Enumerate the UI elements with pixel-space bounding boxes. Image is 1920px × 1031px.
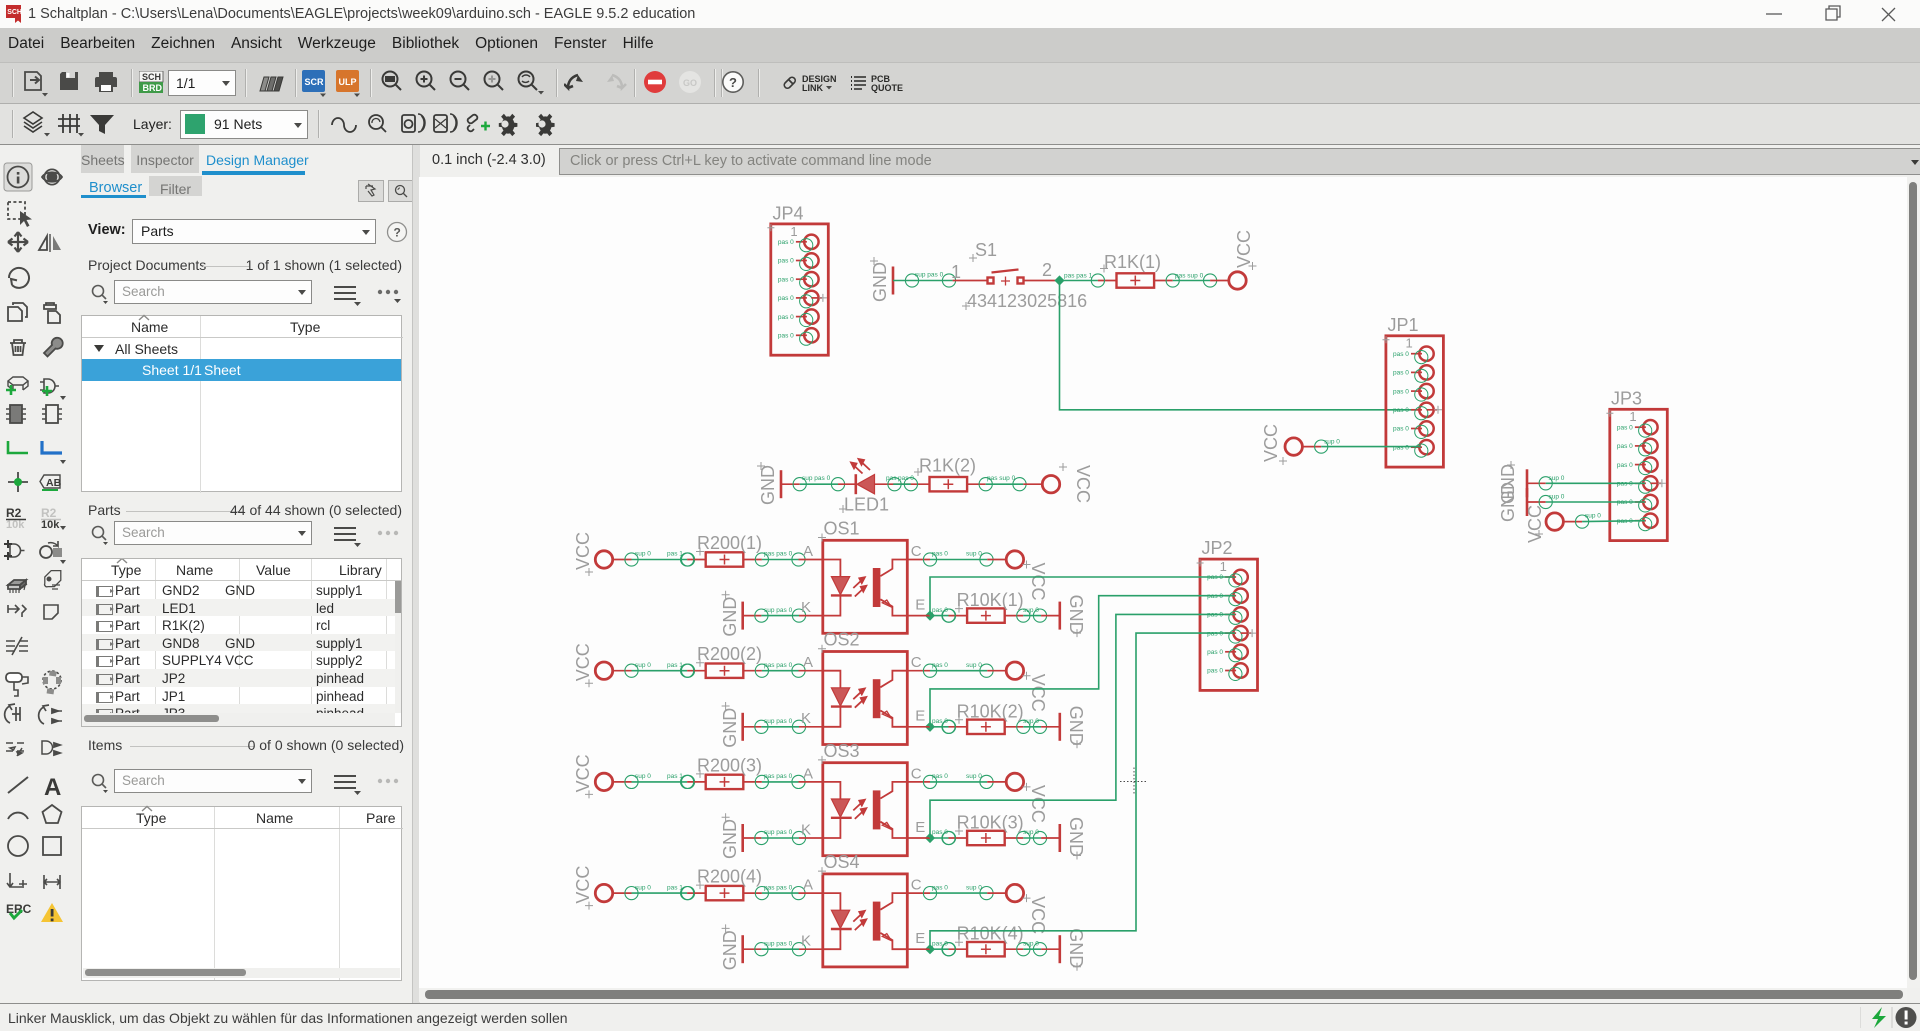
items table [81, 806, 402, 981]
svg-text:pas 0: pas 0 [932, 829, 948, 836]
optocoupler OS4 [801, 874, 925, 967]
svg-text:R200(3): R200(3) [697, 755, 762, 775]
svg-text:sup 0: sup 0 [966, 662, 982, 669]
svg-text:VCC: VCC [1028, 896, 1048, 934]
ground symbol GND (R10K(4)) [1041, 928, 1086, 971]
resistor R10K(3) [942, 831, 1030, 845]
svg-text:sup pas 0: sup pas 0 [915, 272, 944, 279]
svg-text:GND: GND [1066, 595, 1086, 635]
wire: GND to JP3 pin 4 [1527, 475, 1645, 490]
label R1K(2) [914, 456, 976, 477]
value label 434123025816 [962, 291, 1087, 311]
optocoupler OS2 [801, 652, 925, 745]
svg-text:sup pas 0: sup pas 0 [764, 940, 793, 947]
svg-text:BRD: BRD [143, 83, 163, 93]
resistor R200(1) [681, 552, 769, 566]
wire: OS2 emitter to R10K(2) [907, 718, 955, 733]
svg-text:sup 0: sup 0 [1549, 475, 1565, 482]
svg-text:sup 0: sup 0 [966, 884, 982, 891]
svg-text:VCC: VCC [573, 532, 593, 570]
wire: VCC to R200(2) [625, 662, 695, 677]
svg-text:VCC: VCC [1261, 424, 1281, 462]
label S1 [969, 240, 997, 262]
svg-text:R1K(1): R1K(1) [1104, 252, 1161, 272]
svg-text:GO: GO [683, 78, 697, 88]
svg-text:VCC: VCC [1234, 230, 1254, 268]
svg-text:GND: GND [1066, 817, 1086, 857]
supply VCC (R200(4) input) [573, 866, 632, 910]
LED LED1 [838, 459, 911, 494]
label OS3 [818, 741, 860, 764]
svg-text:OS2: OS2 [824, 630, 860, 650]
svg-text:pas sup 0: pas sup 0 [1175, 273, 1204, 280]
toolbar row 1 [0, 63, 1920, 104]
svg-text:VCC: VCC [1028, 563, 1048, 601]
svg-text:pas 0: pas 0 [932, 773, 948, 780]
ground symbol GND (R10K(1)) [1041, 595, 1086, 638]
optocoupler OS1 [801, 540, 925, 633]
svg-text:R10K(2): R10K(2) [957, 701, 1024, 721]
wire: GND to OS2 cathode [743, 718, 823, 733]
wire: R200(4) to OS4 anode [762, 884, 823, 899]
ground symbol GND (OS4 cathode) [720, 924, 743, 970]
svg-text:VCC: VCC [573, 754, 593, 792]
svg-text:sup 0: sup 0 [635, 662, 651, 669]
label R200(3) [696, 755, 762, 778]
supply VCC (R200(3) input) [573, 754, 632, 798]
svg-text:SCR: SCR [305, 77, 325, 87]
svg-text:R10K(1): R10K(1) [957, 590, 1024, 610]
svg-text:pas 0: pas 0 [932, 662, 948, 669]
wire: R1K(2) to VCC [986, 475, 1026, 491]
svg-text:GND: GND [1498, 482, 1518, 522]
switch S1 [953, 270, 1059, 286]
resistor R200(2) [681, 664, 769, 678]
svg-text:GND: GND [720, 708, 740, 748]
svg-text:A: A [44, 774, 61, 801]
svg-text:pas sup 0: pas sup 0 [987, 475, 1016, 482]
label LED1 [839, 495, 889, 515]
resistor R1K(2) [904, 477, 992, 491]
svg-text:pas pas 0: pas pas 0 [764, 884, 793, 891]
svg-text:VCC: VCC [1028, 785, 1048, 823]
wire: OS2 collector to VCC [907, 662, 993, 677]
svg-text:pas 0: pas 0 [898, 475, 914, 482]
wire: R200(3) to OS3 anode [762, 773, 823, 788]
svg-text:sup 0: sup 0 [1585, 513, 1601, 520]
svg-text:JP3: JP3 [1611, 389, 1642, 409]
label R1K(1) [1100, 252, 1161, 273]
svg-text:VCC: VCC [1073, 465, 1093, 503]
svg-text:R2: R2 [6, 506, 22, 520]
svg-text:pas pas 1: pas pas 1 [1064, 273, 1093, 280]
wire: OS3 collector to VCC [907, 773, 993, 788]
svg-text:GND: GND [720, 597, 740, 637]
svg-text:QUOTE: QUOTE [871, 83, 903, 93]
wire: GND to LED1 cathode [781, 475, 845, 491]
label R200(4) [696, 867, 762, 890]
resistor R10K(4) [942, 942, 1030, 956]
wire: OS4 collector to VCC [907, 884, 993, 899]
supply VCC (OS2 collector) [987, 662, 1048, 712]
junction node (S1/R1K/JP1 net) [1054, 275, 1064, 285]
svg-text:ULP: ULP [339, 77, 357, 87]
supply VCC (OS1 collector) [987, 551, 1048, 601]
svg-text:GND: GND [758, 465, 778, 505]
wire: junction to R1K(1) [1060, 273, 1098, 281]
label OS4 [818, 852, 860, 875]
svg-text:pas 0: pas 0 [932, 718, 948, 725]
svg-text:AB: AB [46, 477, 62, 489]
schematic canvas [419, 177, 1907, 988]
parts table [81, 558, 402, 727]
mouse crosshair cursor [1120, 768, 1148, 796]
label R10K(1) [955, 590, 1024, 613]
svg-text:GND: GND [1066, 928, 1086, 968]
wire: R10K(3) to GND [1023, 829, 1047, 844]
resistor R200(4) [681, 886, 769, 900]
supply VCC (OS4 collector) [987, 884, 1048, 934]
svg-text:OS1: OS1 [824, 519, 860, 539]
connector JP4 [767, 224, 828, 355]
ground symbol GND (R10K(2)) [1041, 706, 1086, 749]
supply VCC (LED net) [1023, 463, 1093, 503]
svg-text:sup 0: sup 0 [966, 773, 982, 780]
svg-text:JP1: JP1 [1388, 315, 1419, 335]
svg-text:sup pas 0: sup pas 0 [764, 718, 793, 725]
svg-text:sup 0: sup 0 [1549, 494, 1565, 501]
supply VCC (JP1 pin 6) [1261, 424, 1321, 465]
svg-text:sup pas 0: sup pas 0 [764, 607, 793, 614]
wire: GND to OS4 cathode [743, 940, 823, 955]
wire: OS4 emitter to JP2 pin 4 [930, 633, 1235, 949]
svg-text:SCH: SCH [142, 72, 161, 82]
svg-text:10k: 10k [41, 519, 60, 531]
label JP2 [1202, 538, 1233, 558]
label OS2 [818, 630, 860, 653]
ground symbol GND (LED net) [757, 462, 781, 505]
svg-text:pas: pas [886, 475, 897, 482]
wire: R200(2) to OS2 anode [762, 662, 823, 677]
svg-text:sup 0: sup 0 [1023, 718, 1039, 725]
wire: LED1 anode to R1K(2) [886, 475, 914, 491]
svg-text:OS3: OS3 [824, 741, 860, 761]
wire: VCC to R200(4) [625, 884, 695, 899]
project documents table [81, 315, 402, 492]
svg-text:OS4: OS4 [824, 852, 860, 872]
svg-text:JP2: JP2 [1202, 538, 1233, 558]
svg-text:?: ? [729, 75, 737, 90]
svg-text:R10K(4): R10K(4) [957, 924, 1024, 944]
optocoupler OS3 [801, 763, 925, 856]
wire: VCC to R200(1) [625, 551, 695, 566]
status bar [0, 1003, 1920, 1031]
ground symbol GND (JP3 pin 4) [1498, 461, 1527, 504]
svg-text:sup pas 0: sup pas 0 [764, 829, 793, 836]
wire: R200(1) to OS1 anode [762, 551, 823, 566]
svg-text:JP4: JP4 [773, 204, 804, 224]
label JP3 [1611, 389, 1642, 409]
svg-text:LED1: LED1 [844, 495, 889, 515]
connector JP2 [1197, 559, 1258, 690]
ground symbol GND (S1 net) [870, 257, 893, 302]
svg-text:R2: R2 [41, 506, 57, 520]
svg-text:pas pas 0: pas pas 0 [764, 662, 793, 669]
label R200(2) [696, 644, 762, 667]
svg-text:pas pas 0: pas pas 0 [764, 551, 793, 558]
svg-text:sup 0: sup 0 [635, 884, 651, 891]
svg-text:434123025816: 434123025816 [967, 291, 1087, 311]
svg-text:S1: S1 [975, 240, 997, 260]
left tool palette [0, 145, 82, 1003]
svg-text:R200(2): R200(2) [697, 644, 762, 664]
supply VCC (R200(2) input) [573, 643, 632, 687]
wire: R10K(4) to GND [1023, 940, 1047, 955]
label R10K(4) [955, 924, 1024, 947]
label JP1 [1388, 315, 1419, 335]
menu bar [0, 28, 1920, 63]
wire: OS1 emitter to R10K(1) [907, 607, 955, 622]
label R10K(3) [955, 813, 1024, 836]
wire: OS3 emitter to R10K(3) [907, 829, 955, 844]
wire: GND to S1 pin 1 [893, 272, 956, 288]
design manager panel [81, 145, 412, 1003]
svg-text:pas 0: pas 0 [932, 551, 948, 558]
svg-text:10k: 10k [6, 519, 25, 531]
svg-text:sup 0: sup 0 [1023, 940, 1039, 947]
ground symbol GND (R10K(3)) [1041, 817, 1086, 860]
label OS1 [818, 519, 860, 542]
junction node (OS1 emitter) [925, 611, 935, 621]
wire: R10K(1) to GND [1023, 607, 1047, 622]
wire: VCC to JP3 pin 6 [1576, 513, 1646, 529]
supply VCC (OS3 collector) [987, 773, 1048, 823]
svg-text:sup 0: sup 0 [1324, 439, 1340, 446]
supply VCC (R200(1) input) [573, 532, 632, 576]
window title bar [0, 0, 1920, 28]
svg-text:sup 0: sup 0 [635, 551, 651, 558]
svg-text:GND: GND [1066, 706, 1086, 746]
svg-text:pas 0: pas 0 [932, 940, 948, 947]
svg-text:pas pas 0: pas pas 0 [764, 773, 793, 780]
ground symbol GND (OS1 cathode) [720, 591, 743, 637]
junction node (OS3 emitter) [925, 833, 935, 843]
wire: OS1 emitter to JP2 pin 1 [930, 577, 1235, 616]
resistor R200(3) [681, 775, 769, 789]
label JP4 [773, 204, 804, 224]
connector JP3 [1606, 409, 1667, 540]
resistor R1K(1) [1091, 273, 1179, 287]
label 1 (S1 pin 1) [951, 262, 961, 282]
wire: OS4 emitter to R10K(4) [907, 940, 955, 955]
supply VCC (S1 net) [1210, 230, 1256, 289]
svg-text:?: ? [394, 226, 401, 240]
wire: junction to JP1 pin 4 [1060, 281, 1422, 410]
wire: VCC to JP1 pin 6 [1315, 439, 1421, 454]
svg-text:GND: GND [720, 819, 740, 859]
wire: R10K(2) to GND [1023, 718, 1047, 733]
svg-text:GND: GND [870, 262, 890, 302]
wire: OS3 emitter to JP2 pin 3 [930, 614, 1235, 838]
svg-text:R10K(3): R10K(3) [957, 813, 1024, 833]
junction node (OS4 emitter) [925, 944, 935, 954]
svg-text:sup 0: sup 0 [1023, 607, 1039, 614]
svg-text:VCC: VCC [573, 866, 593, 904]
label R200(1) [696, 533, 762, 556]
resistor R10K(1) [942, 608, 1030, 622]
svg-text:sup 0: sup 0 [966, 551, 982, 558]
svg-text:GND: GND [720, 930, 740, 970]
svg-text:R200(1): R200(1) [697, 533, 762, 553]
svg-text:VCC: VCC [1028, 674, 1048, 712]
svg-text:R200(4): R200(4) [697, 867, 762, 887]
label 2 (S1 pin 2) [1042, 260, 1052, 280]
svg-text:2: 2 [1042, 260, 1052, 280]
junction node (OS2 emitter) [925, 722, 935, 732]
svg-text:sup 0: sup 0 [1023, 829, 1039, 836]
svg-text:sup pas 0: sup pas 0 [802, 475, 831, 482]
label R10K(2) [955, 701, 1024, 724]
svg-text:LINK: LINK [802, 83, 823, 93]
toolbar row 2 [0, 104, 1920, 145]
svg-text:pas 0: pas 0 [932, 884, 948, 891]
wire: OS2 emitter to JP2 pin 2 [930, 596, 1235, 727]
wire: OS1 collector to VCC [907, 551, 993, 566]
svg-text:R1K(2): R1K(2) [919, 456, 976, 476]
svg-text:SCH: SCH [7, 9, 22, 16]
wire: R1K(1) to VCC [1173, 273, 1217, 288]
svg-text:VCC: VCC [573, 643, 593, 681]
supply VCC (JP3 pin 6) [1525, 505, 1582, 543]
wire: GND to OS1 cathode [743, 607, 823, 622]
command strip [419, 145, 1920, 177]
svg-text:1: 1 [951, 262, 961, 282]
wire: GND to JP3 pin 5 [1527, 494, 1645, 509]
svg-text:pas 0: pas 0 [932, 607, 948, 614]
connector JP1 [1383, 336, 1444, 467]
ground symbol GND (OS2 cathode) [720, 702, 743, 748]
resistor R10K(2) [942, 720, 1030, 734]
ground symbol GND (OS3 cathode) [720, 813, 743, 859]
wire: GND to OS3 cathode [743, 829, 823, 844]
wire: VCC to R200(3) [625, 773, 695, 788]
svg-text:VCC: VCC [1525, 505, 1545, 543]
svg-text:sup 0: sup 0 [635, 773, 651, 780]
ground symbol GND (JP3 pin 5) [1498, 482, 1527, 522]
